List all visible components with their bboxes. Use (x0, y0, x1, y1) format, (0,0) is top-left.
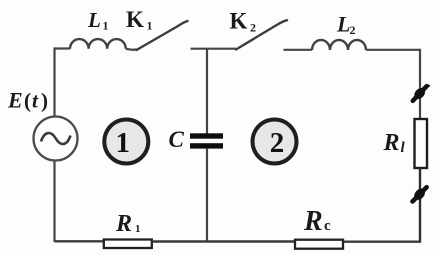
switch K2 blade (open) (236, 20, 287, 49)
svg-text:2: 2 (350, 23, 356, 37)
svg-text:L: L (336, 12, 350, 37)
svg-text:K: K (230, 9, 248, 34)
svg-text:(: ( (24, 89, 31, 113)
svg-text:R: R (115, 211, 132, 237)
svg-text:K: K (126, 7, 144, 32)
nonlinear mark (upper slash) on RL branch (412, 86, 428, 101)
nonlinear mark (lower slash) on RL branch (412, 187, 428, 202)
svg-text:L: L (87, 8, 101, 32)
inductor L1 coil (70, 39, 126, 49)
node 2 circle (253, 120, 297, 164)
svg-text:l: l (401, 140, 406, 156)
svg-text:1: 1 (147, 19, 153, 33)
svg-text:t: t (32, 89, 39, 113)
wire bottom left segment (55, 240, 104, 242)
source E(t) U1 circle (34, 117, 78, 161)
svg-text:C: C (169, 127, 185, 152)
wire K1 fixed contact to middle node (191, 48, 237, 50)
wire bottom middle segment (153, 240, 295, 242)
svg-text:c: c (324, 218, 331, 234)
wire middle vertical upper (node top to capacitor) (206, 49, 208, 134)
wire bottom right segment (344, 240, 421, 242)
wire RL to bottom-right corner (419, 168, 421, 242)
inductor L2 coil (312, 40, 366, 50)
resistor R1 body (104, 240, 152, 249)
capacitor C top plate (190, 133, 223, 138)
svg-text:E: E (7, 88, 23, 113)
capacitor C bottom plate (190, 143, 223, 148)
svg-text:2: 2 (250, 21, 256, 35)
wire K2 fixed contact to L2 (284, 49, 313, 51)
svg-text:2: 2 (270, 127, 285, 159)
resistor Rc body (295, 240, 343, 249)
wire left vertical bottom (source to bottom wire) (53, 161, 55, 243)
svg-text:): ) (41, 89, 48, 113)
node 1 circle (104, 120, 148, 164)
wire middle vertical lower (capacitor to bottom wire) (206, 149, 208, 242)
svg-text:R: R (303, 206, 323, 237)
wire left vertical top (source to top wire) (53, 49, 55, 117)
switch K1 blade (open) (137, 21, 188, 50)
source E(t) sine wave (41, 133, 71, 144)
wire top-left segment (54, 47, 71, 49)
wire L1 to K1 pivot (126, 49, 137, 50)
resistor RL body (415, 119, 428, 168)
svg-text:1: 1 (103, 19, 109, 33)
wire L2 to top-right corner (366, 49, 420, 119)
svg-text:R: R (383, 130, 400, 156)
svg-text:1: 1 (116, 127, 131, 159)
svg-text:1: 1 (135, 223, 141, 235)
